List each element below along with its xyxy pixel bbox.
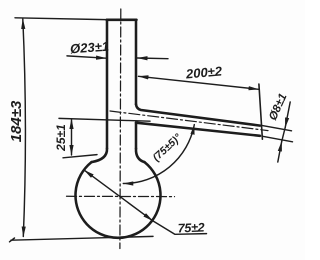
- dimension 184±3 line: [23, 19, 26, 237]
- side tube centerline: [110, 111, 268, 131]
- flask bulb: [76, 162, 161, 238]
- dimension Ф8±1 extension lower: [262, 136, 293, 142]
- dimension Ф8±1 line lower arrow: [278, 142, 282, 163]
- side tube upper edge: [136, 104, 260, 125]
- svg-text:184±3: 184±3: [8, 100, 25, 142]
- flask neck right wall lower: [135, 123, 138, 149]
- dimension 75±2 leader: [153, 221, 207, 235]
- dimension 184±3 extension top: [15, 18, 105, 20]
- flask neck top edge: [107, 19, 137, 22]
- svg-text:25±1: 25±1: [54, 124, 68, 152]
- flask left shoulder: [92, 149, 108, 163]
- side tube lower edge: [136, 123, 260, 136]
- dimension 25±1 extension top: [59, 118, 150, 121]
- dimension Ф8±1 line upper arrow: [285, 102, 290, 128]
- dimension 25±1 line: [71, 119, 73, 155]
- svg-text:Ø8±1: Ø8±1: [267, 92, 289, 123]
- dimension 200±2 line: [139, 76, 259, 89]
- dimension 25±1 extension bottom: [63, 155, 97, 158]
- dimension 75±2 diameter line: [84, 170, 152, 221]
- flask right shoulder: [136, 149, 145, 163]
- dimension Ф23±1 left leader: [67, 56, 106, 58]
- svg-text:200±2: 200±2: [184, 63, 223, 81]
- svg-text:75±2: 75±2: [178, 221, 205, 236]
- angle dimension (75±5)° arc: [123, 125, 194, 184]
- dimension Ф8±1 extension upper: [261, 125, 292, 131]
- dimension Ф23±1 right leader: [138, 57, 169, 60]
- svg-text:Ø23±1: Ø23±1: [70, 39, 110, 57]
- dimension Ф8±1 line middle: [282, 128, 286, 142]
- dimension 200±2 right extension / tube end face: [259, 84, 263, 139]
- flask neck left wall: [106, 20, 109, 149]
- svg-text:(75±5)°: (75±5)°: [150, 131, 184, 164]
- bulb horizontal centerline: [67, 195, 175, 197]
- vertical centerline: [119, 9, 122, 249]
- dimension 184±3 extension bottom: [11, 236, 153, 240]
- flask neck right wall upper: [135, 20, 138, 105]
- dimension 184±3 end tick: [10, 238, 15, 242]
